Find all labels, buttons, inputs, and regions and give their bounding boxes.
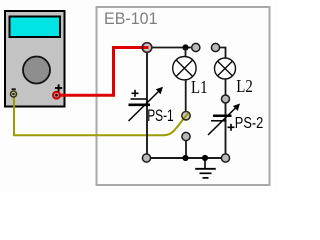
socket L2/PS-2 [222,95,230,103]
socket bottom left [142,154,150,162]
PS-2 thick plate [213,115,232,118]
L1 branch top wire [185,48,187,58]
socket top A [192,43,200,51]
lamp L1 [173,56,196,79]
L1 branch lower wire [185,79,187,112]
L2 to socket wire [225,79,227,100]
lamp L2 [215,58,236,79]
multimeter minus label [12,88,16,90]
multimeter plus label [55,84,62,91]
stub to bottom rail [185,141,187,159]
socket fill under olive lead [182,112,190,120]
PS-1 thin plate [131,98,148,100]
svg-text:L2: L2 [236,76,253,96]
PS-1 thick plate [129,103,151,106]
bottom rail wire [147,157,226,159]
multimeter display [10,17,61,38]
junction top [182,44,188,50]
socket bottom right [221,154,229,162]
left branch wire (through PS-1) [146,52,148,158]
olive wire [14,96,188,135]
L2 top wire [219,48,226,59]
svg-text:PS-1: PS-1 [147,106,174,125]
socket below olive [182,132,190,140]
multimeter body [5,11,65,107]
svg-text:EB-101: EB-101 [104,10,158,28]
PS-2 thin plate [211,120,227,122]
svg-text:PS-2: PS-2 [235,115,264,132]
PS-1 plus [132,90,139,97]
svg-text:L1: L1 [191,77,208,97]
board outline EB-101 [97,7,270,185]
socket top B [211,43,219,51]
PS-2 arrow [208,108,236,136]
multimeter plus terminal [53,92,60,99]
multimeter knob [23,57,50,84]
PS-1 arrow [129,92,159,122]
multimeter minus terminal [11,91,17,97]
junction bottom ground [202,155,208,161]
junction bottom L1 [182,155,188,161]
PS-2 plus [228,124,235,131]
socket with olive lead [182,112,190,120]
PS-2 branch wire [225,103,227,158]
red wire [58,48,149,96]
node socket fill [142,43,152,53]
node with red lead [142,43,152,53]
ground [195,158,216,178]
top rail wire [152,47,197,49]
